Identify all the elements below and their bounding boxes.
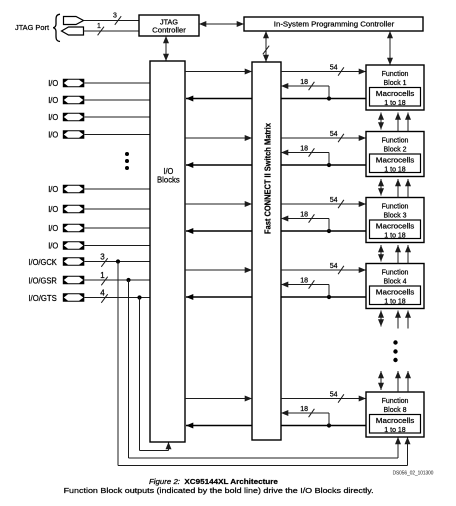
svg-text:Figure 2:XC95144XL Architectur: Figure 2:XC95144XL Architecture: [149, 477, 278, 486]
svg-text:DS056_02_101300: DS056_02_101300: [393, 471, 434, 477]
svg-text:18: 18: [300, 406, 308, 413]
svg-text:I/O: I/O: [48, 113, 58, 122]
svg-text:18: 18: [300, 212, 308, 219]
svg-text:3: 3: [100, 253, 105, 262]
svg-text:Function: Function: [382, 138, 409, 145]
svg-text:Function: Function: [382, 71, 409, 78]
svg-text:18: 18: [300, 278, 308, 285]
svg-text:Macrocells: Macrocells: [376, 289, 415, 296]
svg-text:Macrocells: Macrocells: [376, 223, 415, 230]
svg-text:Fast CONNECT II Switch Matrix: Fast CONNECT II Switch Matrix: [263, 123, 273, 234]
svg-text:I/O: I/O: [48, 131, 58, 140]
svg-text:In-System Programming Controll: In-System Programming Controller: [274, 19, 395, 28]
svg-text:Block 3: Block 3: [384, 213, 407, 220]
svg-text:18: 18: [300, 79, 308, 86]
svg-text:Function: Function: [382, 398, 409, 405]
svg-text:1: 1: [97, 23, 101, 30]
svg-text:I/O: I/O: [48, 185, 58, 194]
svg-text:1 to 18: 1 to 18: [384, 427, 406, 434]
svg-text:54: 54: [330, 131, 338, 138]
svg-text:Block 1: Block 1: [384, 80, 407, 87]
svg-text:Block 4: Block 4: [384, 279, 407, 286]
svg-text:4: 4: [100, 289, 105, 298]
svg-text:Macrocells: Macrocells: [376, 157, 415, 164]
svg-text:54: 54: [330, 65, 338, 72]
svg-text:1: 1: [100, 271, 105, 280]
svg-text:Controller: Controller: [152, 26, 186, 35]
svg-text:Macrocells: Macrocells: [376, 91, 415, 98]
svg-text:I/O/GCK: I/O/GCK: [28, 258, 57, 267]
svg-text:18: 18: [300, 146, 308, 153]
svg-text:Block 8: Block 8: [384, 407, 407, 414]
svg-text:1 to 18: 1 to 18: [384, 167, 406, 174]
svg-text:I/O: I/O: [48, 96, 58, 105]
svg-text:1 to 18: 1 to 18: [384, 299, 406, 306]
svg-text:54: 54: [330, 197, 338, 204]
svg-text:Block 2: Block 2: [384, 147, 407, 154]
svg-text:Macrocells: Macrocells: [376, 418, 415, 425]
svg-text:1 to 18: 1 to 18: [384, 100, 406, 107]
svg-text:I/O: I/O: [48, 79, 58, 88]
svg-text:I/O: I/O: [48, 224, 58, 233]
svg-text:Blocks: Blocks: [157, 175, 180, 184]
svg-text:I/O/GSR: I/O/GSR: [28, 276, 57, 285]
svg-text:Function: Function: [382, 204, 409, 211]
svg-text:I/O: I/O: [48, 242, 58, 251]
svg-text:1 to 18: 1 to 18: [384, 233, 406, 240]
svg-text:Function: Function: [382, 270, 409, 277]
svg-text:I/O: I/O: [48, 205, 58, 214]
svg-text:54: 54: [330, 263, 338, 270]
svg-text:54: 54: [330, 392, 338, 399]
svg-text:3: 3: [113, 13, 117, 20]
svg-text:I/O/GTS: I/O/GTS: [28, 294, 56, 303]
svg-text:Function Block outputs (indica: Function Block outputs (indicated by the…: [64, 486, 374, 495]
svg-text:JTAG Port: JTAG Port: [15, 23, 50, 32]
